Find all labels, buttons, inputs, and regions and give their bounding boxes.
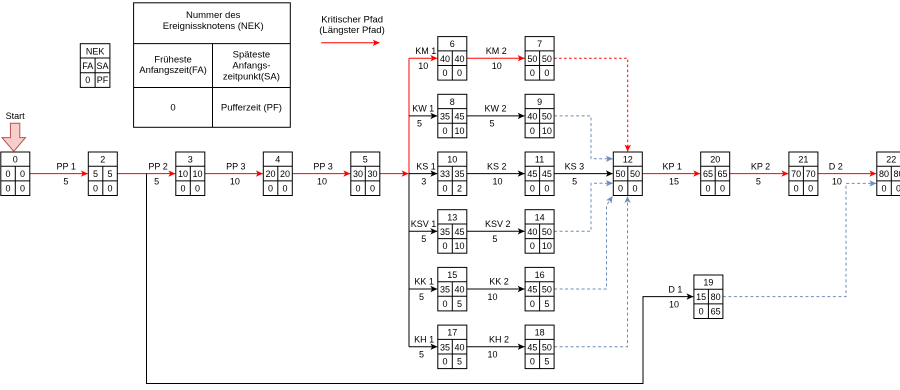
svg-text:D 1: D 1	[668, 284, 682, 294]
svg-text:5: 5	[363, 155, 368, 165]
label KW 1 duration 5	[417, 119, 422, 129]
node 8	[438, 94, 467, 138]
svg-text:35: 35	[440, 342, 450, 352]
edge KS 2 (10 to 11)	[467, 173, 525, 175]
svg-text:Späteste: Späteste	[233, 50, 271, 61]
svg-text:Pufferzeit (PF): Pufferzeit (PF)	[221, 103, 282, 114]
svg-text:45: 45	[527, 169, 537, 179]
svg-text:16: 16	[535, 270, 545, 280]
label KP 2 duration 5	[756, 176, 761, 186]
svg-text:10: 10	[487, 350, 497, 360]
svg-text:40: 40	[527, 112, 537, 122]
svg-text:PP 3: PP 3	[313, 161, 332, 171]
svg-text:50: 50	[630, 169, 640, 179]
svg-text:40: 40	[455, 342, 465, 352]
svg-text:0: 0	[181, 184, 186, 194]
label KH 1 duration 5	[419, 350, 424, 360]
svg-text:KH 2: KH 2	[489, 334, 509, 344]
svg-text:Anfangszeit(FA): Anfangszeit(FA)	[139, 65, 207, 76]
wire node 14 to node 12 (blue dashed)	[554, 183, 613, 231]
wire node 7 to node 12 (red dashed critical path)	[554, 58, 628, 151]
svg-text:KS 3: KS 3	[565, 161, 585, 171]
edge KK 1 (junction to 15)	[409, 288, 437, 290]
svg-text:80: 80	[711, 292, 721, 302]
label KSV 1 duration 5	[421, 234, 426, 244]
svg-text:0: 0	[544, 68, 549, 78]
svg-text:50: 50	[527, 54, 537, 64]
svg-text:5: 5	[489, 119, 494, 129]
label KS 1	[416, 161, 436, 171]
legend explanation table	[134, 3, 291, 128]
svg-text:PP 2: PP 2	[148, 161, 167, 171]
svg-text:5: 5	[419, 292, 424, 302]
edge PP 3 (3 to 4)	[205, 173, 263, 175]
label KS 2 duration 10	[492, 176, 502, 186]
label KK 1	[414, 277, 434, 287]
svg-text:KP 2: KP 2	[751, 161, 770, 171]
svg-text:FA: FA	[82, 61, 93, 71]
edge KH 2 (17 to 18)	[467, 346, 525, 348]
node 10	[438, 152, 467, 196]
svg-text:10: 10	[832, 176, 842, 186]
svg-text:0: 0	[443, 184, 448, 194]
svg-text:5: 5	[457, 357, 462, 367]
svg-text:0: 0	[93, 184, 98, 194]
svg-text:10: 10	[418, 61, 428, 71]
label KSV 2	[485, 219, 511, 229]
label KW 2 duration 5	[489, 119, 494, 129]
svg-text:0: 0	[618, 184, 623, 194]
svg-text:70: 70	[791, 169, 801, 179]
legend mini node key (NEK/FA SA/0 PF)	[80, 44, 110, 88]
node 14	[525, 210, 554, 254]
svg-text:0: 0	[170, 103, 175, 114]
svg-text:10: 10	[455, 126, 465, 136]
svg-text:22: 22	[886, 155, 896, 165]
label KSV 2 duration 5	[492, 234, 497, 244]
svg-text:13: 13	[447, 212, 457, 222]
svg-text:10: 10	[669, 299, 679, 309]
svg-text:0: 0	[108, 184, 113, 194]
svg-text:0: 0	[530, 126, 535, 136]
svg-text:NEK: NEK	[86, 46, 105, 56]
node 4	[263, 152, 292, 196]
svg-text:3: 3	[188, 155, 193, 165]
svg-text:0: 0	[85, 75, 90, 85]
svg-text:70: 70	[806, 169, 816, 179]
svg-text:45: 45	[542, 169, 552, 179]
svg-text:0: 0	[530, 184, 535, 194]
svg-text:5: 5	[421, 234, 426, 244]
svg-text:65: 65	[717, 169, 727, 179]
node 3	[176, 152, 205, 196]
svg-text:KS 1: KS 1	[416, 161, 436, 171]
svg-text:0: 0	[6, 184, 11, 194]
svg-text:10: 10	[193, 169, 203, 179]
svg-text:0: 0	[195, 184, 200, 194]
svg-text:5: 5	[93, 169, 98, 179]
edge D 2 (21 to 22)	[818, 173, 876, 175]
edge KP 1 (12 to 20)	[642, 173, 700, 175]
svg-text:0: 0	[443, 299, 448, 309]
label KM 1 duration 10	[418, 61, 428, 71]
edge D 1 (from PP 2 down around to 19)	[147, 174, 694, 384]
svg-text:0: 0	[530, 241, 535, 251]
svg-text:KW 2: KW 2	[484, 104, 506, 114]
node 18	[525, 325, 554, 369]
svg-text:45: 45	[455, 112, 465, 122]
label KH 2 duration 10	[487, 350, 497, 360]
wire node 9 to node 12 (blue dashed)	[554, 116, 613, 159]
edge PP 1 (0 to 2)	[30, 173, 88, 175]
svg-text:40: 40	[527, 227, 537, 237]
svg-text:10: 10	[542, 126, 552, 136]
svg-text:20: 20	[710, 155, 720, 165]
label KH 1	[414, 334, 434, 344]
label KP 2	[751, 161, 770, 171]
svg-text:7: 7	[537, 39, 542, 49]
svg-text:5: 5	[108, 169, 113, 179]
label D 1	[668, 284, 682, 294]
svg-text:0: 0	[443, 68, 448, 78]
svg-text:3: 3	[421, 176, 426, 186]
svg-text:zeitpunkt(SA): zeitpunkt(SA)	[223, 71, 280, 82]
svg-text:0: 0	[808, 184, 813, 194]
label PP 2	[148, 161, 167, 171]
edge KH 1 (junction to 17)	[409, 346, 437, 348]
svg-text:50: 50	[542, 112, 552, 122]
label PP 3 (first)	[226, 161, 245, 171]
svg-text:6: 6	[450, 39, 455, 49]
svg-text:0: 0	[20, 184, 25, 194]
svg-text:KK 2: KK 2	[489, 277, 509, 287]
node 16	[525, 267, 554, 311]
svg-text:45: 45	[455, 227, 465, 237]
wire node 16 to node 12 (blue dashed)	[554, 196, 612, 289]
svg-text:50: 50	[542, 54, 552, 64]
svg-text:KSV 1: KSV 1	[411, 219, 437, 229]
label D 2 duration 10	[832, 176, 842, 186]
label KP 1	[663, 161, 682, 171]
svg-text:10: 10	[492, 61, 502, 71]
svg-text:20: 20	[266, 169, 276, 179]
edge KK 2 (15 to 16)	[467, 288, 525, 290]
svg-text:5: 5	[457, 299, 462, 309]
svg-text:0: 0	[705, 184, 710, 194]
svg-text:0: 0	[544, 184, 549, 194]
svg-text:0: 0	[457, 68, 462, 78]
svg-text:2: 2	[457, 184, 462, 194]
svg-text:5: 5	[544, 357, 549, 367]
svg-text:0: 0	[443, 126, 448, 136]
svg-text:D 2: D 2	[829, 161, 843, 171]
label KM 2	[486, 46, 507, 56]
svg-text:10: 10	[542, 241, 552, 251]
edge PP 3 (4 to 5)	[292, 173, 350, 175]
svg-text:5: 5	[544, 299, 549, 309]
node 20	[701, 152, 730, 196]
svg-text:4: 4	[275, 155, 280, 165]
node 19	[694, 275, 723, 319]
edge KSV 1 (junction to 13)	[409, 230, 437, 232]
svg-text:(Längster Pfad): (Längster Pfad)	[319, 25, 384, 36]
wire junction down to KH row (black)	[408, 174, 410, 347]
label KP 1 duration 15	[669, 176, 679, 186]
svg-text:35: 35	[440, 112, 450, 122]
wire node 18 to node 12 (blue dashed)	[554, 196, 627, 346]
label KS 2	[487, 161, 507, 171]
svg-text:SA: SA	[96, 61, 108, 71]
svg-text:Anfangs-: Anfangs-	[232, 61, 270, 72]
svg-text:PP 1: PP 1	[57, 161, 76, 171]
svg-text:50: 50	[542, 227, 552, 237]
svg-text:KH 1: KH 1	[414, 334, 434, 344]
edge KM 1 (junction to 6)	[409, 57, 437, 59]
node 7	[525, 37, 554, 81]
svg-text:65: 65	[703, 169, 713, 179]
node 12	[613, 152, 642, 196]
node 9	[525, 94, 554, 138]
label KW 1	[412, 104, 434, 114]
svg-text:0: 0	[20, 169, 25, 179]
svg-text:5: 5	[154, 176, 159, 186]
svg-text:8: 8	[450, 97, 455, 107]
svg-text:0: 0	[370, 184, 375, 194]
label PP 3 duration 10 (first)	[230, 176, 240, 186]
svg-text:10: 10	[492, 176, 502, 186]
svg-text:0: 0	[530, 299, 535, 309]
edge PP 2 (2 to 3)	[117, 173, 175, 175]
svg-text:0: 0	[443, 241, 448, 251]
svg-text:10: 10	[487, 292, 497, 302]
node 5	[351, 152, 380, 196]
node 21	[789, 152, 818, 196]
svg-text:5: 5	[417, 119, 422, 129]
svg-text:0: 0	[633, 184, 638, 194]
svg-text:0: 0	[720, 184, 725, 194]
svg-text:5: 5	[419, 350, 424, 360]
wire junction up to KM row (red)	[408, 58, 410, 173]
svg-text:5: 5	[572, 176, 577, 186]
svg-text:10: 10	[455, 241, 465, 251]
node 15	[438, 267, 467, 311]
svg-text:KP 1: KP 1	[663, 161, 682, 171]
svg-text:65: 65	[711, 307, 721, 317]
svg-text:0: 0	[13, 155, 18, 165]
node 2	[88, 152, 117, 196]
label KK 2	[489, 277, 509, 287]
svg-text:2: 2	[100, 155, 105, 165]
label KK 1 duration 5	[419, 292, 424, 302]
start arrow (down)	[2, 123, 26, 151]
label PP 3 duration 10 (second)	[317, 176, 327, 186]
svg-text:19: 19	[703, 278, 713, 288]
svg-text:5: 5	[756, 176, 761, 186]
svg-text:Früheste: Früheste	[154, 54, 192, 65]
svg-text:KW 1: KW 1	[412, 104, 434, 114]
svg-text:5: 5	[63, 176, 68, 186]
label KSV 1	[411, 219, 437, 229]
svg-text:17: 17	[447, 328, 457, 338]
label KM 1	[415, 46, 436, 56]
edge KP 2 (20 to 21)	[730, 173, 789, 175]
svg-text:0: 0	[283, 184, 288, 194]
svg-text:10: 10	[178, 169, 188, 179]
svg-text:KS 2: KS 2	[487, 161, 507, 171]
label PP 1	[57, 161, 76, 171]
svg-text:50: 50	[542, 285, 552, 295]
svg-text:Ereignissknotens (NEK): Ereignissknotens (NEK)	[163, 21, 264, 32]
svg-text:50: 50	[542, 342, 552, 352]
label PP 3 (second)	[313, 161, 332, 171]
svg-text:15: 15	[669, 176, 679, 186]
svg-text:Start: Start	[6, 111, 26, 121]
edge KW 2 (8 to 9)	[467, 115, 525, 117]
svg-text:12: 12	[623, 155, 633, 165]
svg-text:11: 11	[535, 155, 544, 165]
svg-text:KM 2: KM 2	[486, 46, 507, 56]
svg-text:35: 35	[440, 285, 450, 295]
svg-text:0: 0	[268, 184, 273, 194]
svg-text:40: 40	[455, 54, 465, 64]
node 22	[877, 152, 900, 196]
label KM 2 duration 10	[492, 61, 502, 71]
label KS 3 duration 5	[572, 176, 577, 186]
svg-text:9: 9	[537, 97, 542, 107]
svg-text:0: 0	[443, 357, 448, 367]
svg-text:0: 0	[882, 184, 887, 194]
label KS 1 duration 3	[421, 176, 426, 186]
label KS 3	[565, 161, 585, 171]
svg-text:20: 20	[280, 169, 290, 179]
svg-text:KK 1: KK 1	[414, 277, 434, 287]
svg-text:10: 10	[230, 176, 240, 186]
svg-text:40: 40	[440, 54, 450, 64]
svg-text:35: 35	[455, 169, 465, 179]
wire node 5 to junction (red)	[380, 173, 409, 175]
label KK 2 duration 10	[487, 292, 497, 302]
svg-text:0: 0	[6, 169, 11, 179]
svg-text:15: 15	[696, 292, 706, 302]
label KH 2	[489, 334, 509, 344]
edge KW 1 (junction to 8)	[409, 115, 437, 117]
svg-text:PP 3: PP 3	[226, 161, 245, 171]
node 11	[525, 152, 554, 196]
svg-text:Nummer des: Nummer des	[186, 10, 241, 21]
svg-text:KM 1: KM 1	[415, 46, 436, 56]
edge KS 3 (11 to 12)	[554, 173, 613, 175]
svg-text:0: 0	[699, 307, 704, 317]
svg-text:0: 0	[530, 68, 535, 78]
edge KM 2 (6 to 7)	[467, 57, 525, 59]
edge KSV 2 (13 to 14)	[467, 230, 525, 232]
label Start	[6, 111, 26, 121]
svg-text:0: 0	[356, 184, 361, 194]
node 13	[438, 210, 467, 254]
legend critical path red arrow	[321, 42, 379, 44]
svg-text:30: 30	[368, 169, 378, 179]
svg-text:0: 0	[530, 357, 535, 367]
legend critical path text	[319, 14, 384, 36]
label KW 2	[484, 104, 506, 114]
svg-text:10: 10	[447, 155, 457, 165]
svg-text:45: 45	[527, 285, 537, 295]
svg-text:35: 35	[440, 227, 450, 237]
node 0	[1, 152, 30, 196]
svg-text:KSV 2: KSV 2	[485, 219, 511, 229]
node 17	[438, 325, 467, 369]
svg-text:10: 10	[317, 176, 327, 186]
svg-text:21: 21	[798, 155, 808, 165]
svg-text:5: 5	[492, 234, 497, 244]
svg-text:15: 15	[447, 270, 457, 280]
edge KS 1 (junction to 10)	[409, 173, 437, 175]
label D 2	[829, 161, 843, 171]
svg-text:0: 0	[896, 184, 900, 194]
svg-text:45: 45	[527, 342, 537, 352]
svg-text:30: 30	[353, 169, 363, 179]
label PP 1 duration 5	[63, 176, 68, 186]
wire node 19 to node 22 (blue dashed)	[723, 183, 876, 296]
label PP 2 duration 5	[154, 176, 159, 186]
svg-text:80: 80	[879, 169, 889, 179]
svg-text:40: 40	[455, 285, 465, 295]
svg-text:Kritischer Pfad: Kritischer Pfad	[321, 14, 383, 25]
svg-text:PF: PF	[97, 75, 109, 85]
svg-text:0: 0	[794, 184, 799, 194]
svg-text:80: 80	[894, 169, 900, 179]
svg-text:14: 14	[535, 212, 545, 222]
svg-text:33: 33	[440, 169, 450, 179]
svg-text:50: 50	[616, 169, 626, 179]
label D 1 duration 10	[669, 299, 679, 309]
svg-text:18: 18	[535, 328, 545, 338]
node 6	[438, 37, 467, 81]
